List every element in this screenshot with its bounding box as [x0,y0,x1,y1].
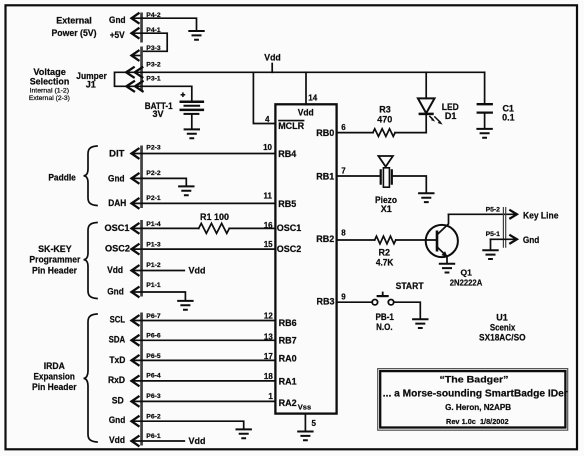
svg-text:8: 8 [341,229,346,238]
label Jumper J1 [76,71,107,90]
wire DAH to RB5 pin 11 [132,202,276,204]
svg-text:OSC1: OSC1 [277,223,302,233]
svg-text:17: 17 [264,352,273,361]
wire RB0 pin 6 to R3 [337,132,373,134]
svg-text:Gnd: Gnd [109,15,126,25]
svg-text:Pin Header: Pin Header [32,265,77,275]
label C1 0.1 [502,104,515,123]
wire P5-1 Gnd [491,238,517,240]
pin P1-4 arrow [132,224,139,234]
svg-text:Scenix: Scenix [490,323,516,333]
label IRDA Expansion Pin Header [32,361,77,392]
svg-text:... a Morse-sounding SmartBadg: ... a Morse-sounding SmartBadge IDer [383,389,568,400]
title block frame [378,369,568,431]
wire P3-3 arrow stub [132,55,142,57]
pin P6-1 arrow [132,436,139,446]
svg-text:5: 5 [312,419,317,428]
svg-text:Vdd: Vdd [264,53,281,64]
label BATT-1 3V [145,101,173,119]
svg-text:1: 1 [268,392,273,401]
svg-text:Expansion: Expansion [33,372,75,382]
svg-text:Vdd: Vdd [298,108,314,118]
wire SCL to RB6 pin 12 [132,320,276,322]
pin P4-2 arrow [132,13,139,23]
pin P6-2 arrow [132,416,139,426]
wire RB2 pin 8 to R2 [337,239,375,241]
ground (paddle gnd) [178,186,194,195]
svg-text:2N2222A: 2N2222A [450,277,483,287]
svg-text:+5V: +5V [110,30,125,40]
paddle group brace [84,146,98,206]
svg-text:P3-3: P3-3 [146,45,161,52]
svg-text:P6-2: P6-2 [146,414,161,421]
wire P1-1 to ground [132,292,186,301]
svg-text:P6-3: P6-3 [146,393,161,400]
svg-text:U1: U1 [496,312,508,322]
svg-text:RB1: RB1 [316,172,334,182]
svg-text:TxD: TxD [109,355,125,365]
svg-text:IRDA: IRDA [44,361,65,371]
wire switch to ground [394,302,420,319]
svg-text:RB6: RB6 [279,318,297,328]
jumper J1 wire bracket [115,72,127,86]
svg-text:SX18AC/SO: SX18AC/SO [479,333,526,343]
svg-text:P2-2: P2-2 [146,170,161,177]
svg-text:6: 6 [341,123,346,132]
connector header P1 bar [140,220,143,297]
wire OSC1 left segment [132,227,199,229]
svg-text:4.7K: 4.7K [376,257,394,267]
connector header P4 bar [140,13,143,43]
svg-text:PB-1: PB-1 [375,312,394,322]
transistor Q1 [426,214,458,263]
svg-text:R1 100: R1 100 [200,212,229,222]
svg-text:MCLR: MCLR [278,121,304,131]
svg-text:Selection: Selection [30,76,70,86]
connector header P6 bar [140,313,143,446]
pin P1-1 arrow [132,287,139,297]
svg-text:Pin Header: Pin Header [32,382,77,392]
wire R3 to LED cathode [395,132,426,134]
svg-text:P6-4: P6-4 [146,373,161,380]
wire pin 5 Vss to ground [304,414,306,432]
svg-text:11: 11 [264,191,273,200]
svg-text:16: 16 [264,221,273,230]
svg-text:OSC2: OSC2 [277,244,302,254]
LED D1 [418,98,443,132]
svg-text:14: 14 [308,94,317,103]
label R3 470 [377,104,392,124]
svg-text:P6-1: P6-1 [146,433,161,440]
svg-text:P5-1: P5-1 [486,231,501,238]
pin P1-3 arrow [132,244,139,254]
wire P5-1 to ground [490,239,492,250]
svg-text:OSC2: OSC2 [105,243,130,253]
svg-text:0.1: 0.1 [502,112,515,122]
label pin MCLR with overline [278,121,304,131]
svg-text:18: 18 [264,372,273,381]
resistor R3 [373,129,395,137]
SK-KEY group brace [84,223,98,299]
ground (Q1 emitter) [439,264,455,273]
pin P3-1 double arrow [126,81,142,91]
svg-text:P5-2: P5-2 [486,207,501,214]
svg-text:Vdd: Vdd [109,435,125,445]
label R2 4.7K [376,247,394,267]
wire piezo to ground [392,176,427,193]
label Piezo X1 [375,195,397,214]
svg-text:470: 470 [377,115,392,125]
wire P2-2 to ground [132,178,187,186]
ground (battery) [184,129,200,138]
label Voltage Selection [29,67,70,102]
svg-text:Paddle: Paddle [48,173,76,183]
svg-text:DIT: DIT [109,149,125,159]
svg-text:Gnd: Gnd [523,235,540,245]
wire net Vdd rail (P3-2 to C1) [126,71,485,73]
wire SD to RA2 pin 1 [132,400,276,402]
svg-text:P1-4: P1-4 [146,221,161,228]
connector header P2 bar [140,146,143,209]
svg-text:P3-2: P3-2 [146,61,161,68]
wire pin 4 MCLR from Vdd rail [253,72,275,123]
ground (P5-1) [482,250,498,259]
svg-text:RB5: RB5 [278,199,296,209]
connector header P5 bar [503,207,505,248]
pin P1-2 arrow [132,266,139,276]
svg-text:4: 4 [265,115,270,124]
svg-text:RB2: RB2 [316,234,334,244]
svg-text:J1: J1 [86,80,96,90]
ground (Vss) [297,432,313,441]
pin P3-3 arrow [132,51,139,61]
svg-text:R2: R2 [379,247,391,257]
svg-text:RB3: RB3 [316,297,334,307]
pin P5-2 arrow (out) [510,210,517,218]
svg-text:D1: D1 [445,111,457,121]
wire P4-1 +5V down to P3-3 [132,33,168,51]
svg-text:Vdd: Vdd [189,265,206,276]
svg-text:RA2: RA2 [279,398,297,408]
ground (P6-2) [236,429,252,438]
svg-text:15: 15 [264,240,273,249]
svg-text:Gnd: Gnd [109,415,126,425]
pin P2-1 arrow [132,199,139,209]
node Vdd label stub [271,64,273,73]
svg-text:Rev 1.0c 1/8/2002: Rev 1.0c 1/8/2002 [446,417,509,426]
label Q1 2N2222A [450,267,483,287]
wire TxD to RA0 pin 17 [132,359,276,361]
pin P6-4 arrow [132,376,139,386]
ground (C1) [476,129,492,138]
wire RB1 pin 7 to piezo [337,175,381,177]
wire P4-2 Gnd to ground [132,18,197,31]
wire P3-1 to battery [126,86,191,101]
svg-text:START: START [396,281,424,291]
pin P5-1 arrow (out) [510,235,517,243]
op IC U1 box (Scenix SX18AC/SO) [275,104,336,413]
pin P2-3 arrow [132,149,139,159]
ground (external power gnd) [188,31,204,40]
svg-text:Internal (1-2): Internal (1-2) [30,87,70,94]
svg-text:Gnd: Gnd [108,174,125,184]
svg-text:RA0: RA0 [279,354,297,364]
ground (P1-1) [177,301,193,310]
svg-text:P2-1: P2-1 [146,195,161,202]
svg-text:“The Badger”: “The Badger” [440,374,509,384]
svg-text:Q1: Q1 [461,267,473,277]
svg-text:RB4: RB4 [278,149,296,159]
svg-text:P3-1: P3-1 [146,76,161,83]
wire P6-1 Vdd stub [132,440,185,442]
battery BATT-1 [180,102,205,114]
resistor R1 [199,223,230,233]
ground (piezo) [418,193,434,202]
svg-text:P6-7: P6-7 [146,313,161,320]
wire P1-2 Vdd stub [132,270,185,272]
svg-text:Vss: Vss [298,402,311,411]
svg-text:9: 9 [341,292,346,301]
svg-text:P1-1: P1-1 [146,282,161,289]
svg-text:Key Line: Key Line [523,210,559,220]
svg-text:Power (5V): Power (5V) [52,28,97,38]
svg-text:P2-3: P2-3 [146,144,161,151]
pin P6-3 arrow [132,397,139,407]
ground (PB-1) [412,319,428,328]
svg-text:7: 7 [341,167,346,176]
label LED D1 [442,102,459,121]
wire OSC2 to pin 15 [132,248,276,250]
svg-text:Vdd: Vdd [189,436,206,447]
pin P6-6 arrow [132,336,139,346]
svg-text:External: External [56,16,92,26]
wire pin 14 Vdd from rail [305,72,307,104]
svg-text:SD: SD [112,396,124,406]
svg-text:RB0: RB0 [316,128,334,138]
svg-text:SDA: SDA [109,334,126,344]
battery BATT-1 plus sign [181,92,186,97]
pin P6-5 arrow [132,356,139,366]
label SK-KEY Programmer Pin Header [29,244,80,275]
svg-text:External (2-3): External (2-3) [29,95,70,102]
capacitor C1 [477,72,493,128]
connector header P3 bar [140,47,143,92]
wire LED anode from Vdd rail [425,72,427,98]
pushbutton PB-1 [372,292,394,305]
label U1 Scenix SX18AC/SO [479,312,526,342]
svg-text:P1-2: P1-2 [146,262,161,269]
svg-text:P6-6: P6-6 [146,332,161,339]
wire DIT to RB4 pin 10 [132,153,276,155]
wire R2 to Q1 base [396,239,437,241]
pin P2-2 arrow [132,174,139,184]
pin P3-2 double arrow [126,67,142,77]
wire Q1 collector to Key Line [449,213,517,215]
svg-text:DAH: DAH [108,198,126,208]
pin P6-7 arrow [132,316,139,326]
svg-text:Programmer: Programmer [29,255,80,265]
svg-text:SCL: SCL [110,314,126,324]
svg-text:Voltage: Voltage [33,67,66,77]
svg-text:10: 10 [263,143,272,152]
svg-text:P1-3: P1-3 [146,241,161,248]
svg-text:X1: X1 [381,204,392,214]
svg-text:Vdd: Vdd [107,265,123,275]
svg-text:P6-5: P6-5 [146,353,161,360]
svg-text:RA1: RA1 [279,376,297,386]
pin P4-1 arrow [132,28,139,38]
svg-text:RB7: RB7 [279,336,297,346]
wire RB3 pin 9 to switch [337,301,372,303]
wire battery to ground [191,114,193,129]
label PB-1 N.O. [375,312,394,332]
wire OSC1 right segment to pin 16 [229,227,275,229]
resistor R2 [375,236,396,244]
svg-text:SK-KEY: SK-KEY [38,244,72,254]
svg-text:13: 13 [264,332,273,341]
wire RxD to RA1 pin 18 [132,380,276,382]
svg-text:OSC1: OSC1 [105,223,130,233]
IRDA group brace [84,314,98,442]
svg-text:N.O.: N.O. [376,322,393,332]
svg-text:3V: 3V [152,109,163,119]
svg-text:RxD: RxD [108,375,125,385]
wire SDA to RB7 pin 13 [132,339,276,341]
svg-text:G. Heron, N2APB: G. Heron, N2APB [445,403,511,412]
svg-text:Gnd: Gnd [107,287,124,297]
wire P6-2 to ground [132,421,244,429]
svg-text:12: 12 [264,312,273,321]
label External Power (5V) [52,16,97,38]
svg-text:R3: R3 [379,104,391,114]
piezo X1 [378,156,393,187]
